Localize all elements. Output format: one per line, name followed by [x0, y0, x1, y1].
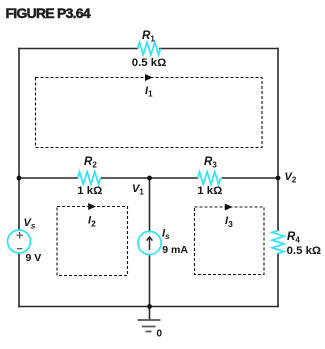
svg-text:1 kΩ: 1 kΩ — [77, 185, 102, 197]
svg-text:FIGURE P3.64: FIGURE P3.64 — [6, 5, 91, 21]
svg-text:0: 0 — [157, 329, 163, 340]
svg-text:1 kΩ: 1 kΩ — [197, 185, 222, 197]
svg-text:0.5 kΩ: 0.5 kΩ — [287, 245, 321, 257]
svg-text:0.5 kΩ: 0.5 kΩ — [132, 57, 166, 69]
svg-text:9 V: 9 V — [26, 252, 42, 264]
svg-text:9 mA: 9 mA — [162, 244, 188, 256]
